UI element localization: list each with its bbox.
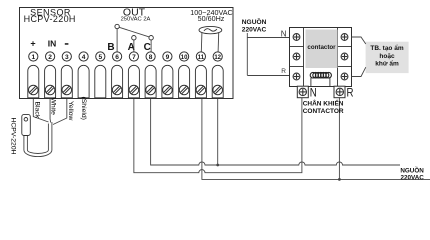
svg-text:7: 7: [132, 54, 136, 61]
svg-text:9: 9: [166, 54, 170, 61]
svg-text:10: 10: [181, 55, 188, 61]
svg-text:2: 2: [48, 54, 52, 61]
svg-text:R: R: [281, 68, 286, 75]
svg-text:3: 3: [65, 54, 69, 61]
svg-text:+: +: [30, 39, 35, 49]
svg-text:CHÂN KHIỂN: CHÂN KHIỂN: [303, 98, 344, 107]
svg-text:C: C: [144, 42, 151, 53]
svg-text:khử ẩm: khử ẩm: [375, 59, 399, 67]
svg-text:5: 5: [98, 54, 102, 61]
svg-text:12: 12: [214, 55, 221, 61]
svg-text:6: 6: [115, 54, 119, 61]
svg-text:CONTACTOR: CONTACTOR: [303, 108, 344, 115]
svg-text:N: N: [281, 30, 287, 39]
svg-text:White: White: [49, 98, 56, 116]
svg-text:8: 8: [149, 54, 153, 61]
svg-text:HCPV-220H: HCPV-220H: [24, 14, 76, 24]
svg-text:TB. tạo ẩm: TB. tạo ẩm: [370, 44, 403, 52]
svg-text:250VAC 2A: 250VAC 2A: [121, 17, 151, 23]
svg-text:contactor: contactor: [307, 44, 336, 51]
svg-text:B: B: [107, 42, 114, 53]
svg-text:N: N: [310, 85, 317, 99]
svg-text:IN: IN: [48, 39, 57, 49]
svg-text:220VAC: 220VAC: [400, 175, 424, 182]
svg-text:(Shield): (Shield): [80, 97, 87, 120]
svg-text:4: 4: [82, 54, 86, 61]
svg-text:50/60Hz: 50/60Hz: [198, 14, 225, 23]
svg-text:hoặc: hoặc: [379, 53, 395, 60]
svg-text:220VAC: 220VAC: [242, 27, 267, 34]
svg-text:R: R: [347, 85, 354, 99]
svg-text:HCPV-220H: HCPV-220H: [10, 118, 17, 155]
svg-text:Black: Black: [34, 102, 41, 119]
svg-text:1: 1: [31, 54, 35, 61]
svg-text:Yellow: Yellow: [67, 101, 74, 120]
svg-text:11: 11: [198, 55, 205, 61]
